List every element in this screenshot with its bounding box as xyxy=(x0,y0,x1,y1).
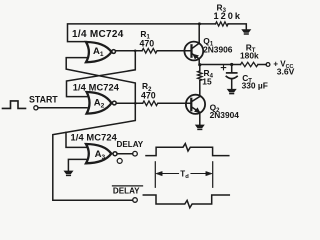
resistor R2 xyxy=(143,101,158,106)
node junction R1 wire feedback tap xyxy=(134,50,137,53)
ground (R3) xyxy=(242,30,251,33)
transistor Q1 (2N3906) xyxy=(184,42,203,65)
wire Q1 emitter node to R4 xyxy=(199,65,201,71)
wire A1 lower input to A2 output (feedback) xyxy=(66,58,135,104)
waveform DELAY (top) with break xyxy=(146,144,229,156)
svg-text:1/4 MC724: 1/4 MC724 xyxy=(73,83,120,93)
ground (A3 input) xyxy=(64,171,73,174)
node DELAY-bar terminal xyxy=(133,198,138,203)
wire A3 upper input drop xyxy=(66,132,86,147)
node junction Q1 emitter / R4 / RT xyxy=(198,63,201,66)
svg-text:1/4 MC724: 1/4 MC724 xyxy=(72,29,124,40)
input pulse symbol xyxy=(3,101,26,109)
node DELAY terminal xyxy=(133,151,138,156)
node START terminal xyxy=(34,106,38,110)
nor gate A1 xyxy=(86,42,112,62)
nor gate A3 xyxy=(86,144,111,163)
wire Q1 collector to top rail xyxy=(198,24,200,43)
svg-text:1/4 MC724: 1/4 MC724 xyxy=(71,132,118,142)
node junction top rail / Q1 collector xyxy=(198,22,201,25)
Td left arrow xyxy=(160,173,179,175)
Td right arrow xyxy=(191,173,208,175)
wire A2 upper input to A1 output (feedback) xyxy=(67,51,136,97)
plus sign (CT polarity) xyxy=(221,65,225,69)
svg-text:2N3904: 2N3904 xyxy=(210,110,240,120)
node junction CT tap xyxy=(230,63,233,66)
wire A3 lower input to ground xyxy=(68,159,86,171)
svg-text:120k: 120k xyxy=(214,11,242,21)
svg-text:15: 15 xyxy=(202,77,212,87)
wire R2 to Q2 base xyxy=(158,102,191,104)
wire A2 output to R2 xyxy=(116,102,142,104)
svg-text:470: 470 xyxy=(141,91,156,101)
svg-text:180k: 180k xyxy=(240,50,259,60)
svg-text:A1: A1 xyxy=(93,46,104,58)
wire R1 to Q1 base xyxy=(158,50,192,52)
svg-text:3.6V: 3.6V xyxy=(277,67,295,77)
svg-text:470: 470 xyxy=(140,39,155,49)
svg-text:DELAY: DELAY xyxy=(113,187,140,196)
overline for DELAY-bar label xyxy=(113,185,143,187)
svg-text:2N3906: 2N3906 xyxy=(203,44,233,54)
node junction R2 wire feedback tap xyxy=(134,102,137,105)
resistor R1 xyxy=(142,49,157,54)
ground (Q2 emitter) xyxy=(196,125,205,128)
svg-text:DELAY: DELAY xyxy=(117,140,144,149)
wire START to A2 lower input xyxy=(38,107,87,109)
node Vcc terminal xyxy=(266,63,270,67)
ground (CT) xyxy=(227,89,236,92)
svg-text:Td: Td xyxy=(180,169,189,180)
waveform DELAY-bar (bottom) with break xyxy=(143,195,229,208)
nor gate A2 xyxy=(87,92,112,114)
transistor Q2 (2N3904) xyxy=(186,95,205,125)
wire A2 output to A3 input and DELAY-bar (feedback) xyxy=(53,103,136,200)
wire R4 to Q2 collector xyxy=(199,81,201,97)
wire A1 output to R1 xyxy=(116,50,142,52)
resistor R4 xyxy=(198,71,202,81)
wire A1 upper input to top rail xyxy=(68,24,216,42)
svg-text:330 µF: 330 µF xyxy=(242,81,268,91)
wire R3 to ground xyxy=(228,24,246,29)
wire A3 output to DELAY terminal xyxy=(117,153,132,155)
svg-text:A2: A2 xyxy=(94,98,105,110)
svg-text:START: START xyxy=(29,94,58,104)
capacitor CT xyxy=(226,65,237,89)
node stray terminal below DELAY xyxy=(117,158,122,163)
svg-text:A3: A3 xyxy=(95,149,106,161)
wire emitter node to RT xyxy=(200,64,241,66)
Td left boundary bar xyxy=(154,162,156,188)
resistor R3 xyxy=(216,22,229,26)
Td right boundary bar xyxy=(212,162,214,188)
wire RT to Vcc terminal xyxy=(258,64,266,66)
resistor RT xyxy=(241,62,258,66)
